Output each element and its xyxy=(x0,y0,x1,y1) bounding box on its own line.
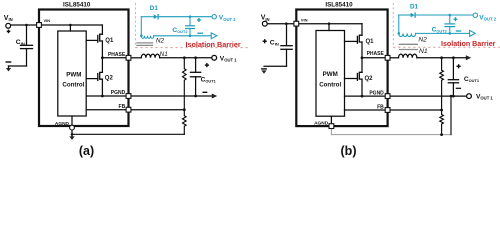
svg-text:FB: FB xyxy=(119,104,126,110)
svg-text:PWM: PWM xyxy=(66,71,81,78)
svg-text:ISL85410: ISL85410 xyxy=(63,2,91,9)
svg-text:N1: N1 xyxy=(419,48,428,55)
svg-text:Isolation Barrier: Isolation Barrier xyxy=(441,40,496,48)
svg-text:PHASE: PHASE xyxy=(108,52,126,58)
svg-text:Q1: Q1 xyxy=(366,39,375,45)
svg-text:AGND: AGND xyxy=(55,121,70,127)
svg-text:VIN: VIN xyxy=(301,18,308,23)
svg-text:FB: FB xyxy=(377,105,384,111)
svg-text:(a): (a) xyxy=(79,144,94,158)
svg-text:AGND: AGND xyxy=(314,120,329,126)
svg-text:Q1: Q1 xyxy=(105,38,114,44)
svg-text:Isolation Barrier: Isolation Barrier xyxy=(186,40,241,49)
svg-text:(b): (b) xyxy=(341,144,357,158)
svg-text:Control: Control xyxy=(62,81,84,88)
svg-text:ISL85410: ISL85410 xyxy=(325,2,353,9)
svg-text:Q2: Q2 xyxy=(105,76,114,82)
svg-text:PHASE: PHASE xyxy=(367,51,385,57)
svg-text:Control: Control xyxy=(319,81,341,88)
svg-text:PWM: PWM xyxy=(323,71,338,78)
svg-text:N1: N1 xyxy=(160,51,169,58)
svg-text:PGND: PGND xyxy=(369,91,384,97)
svg-text:N2: N2 xyxy=(418,37,427,44)
svg-text:D1: D1 xyxy=(150,5,159,12)
svg-text:PGND: PGND xyxy=(111,90,126,96)
svg-text:Q2: Q2 xyxy=(365,76,374,82)
svg-text:N2: N2 xyxy=(156,37,165,44)
svg-text:VIN: VIN xyxy=(44,18,51,23)
svg-text:D1: D1 xyxy=(410,4,419,11)
